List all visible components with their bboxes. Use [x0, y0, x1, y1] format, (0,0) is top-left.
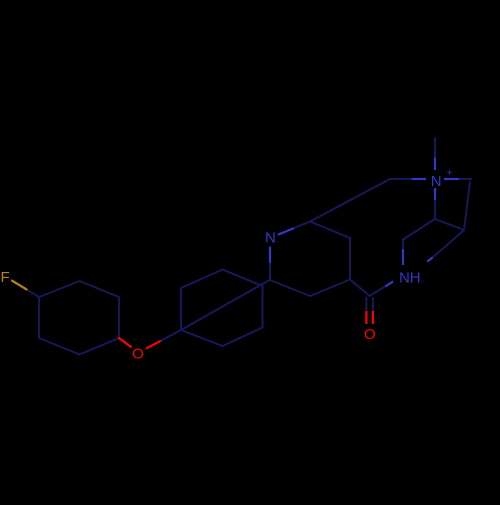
benzene ring1 (4-fluorophenyl) — [39, 281, 80, 297]
svg-text:+: + — [447, 168, 453, 179]
svg-text:N: N — [431, 173, 442, 190]
bond ring1 BR - O ether — [119, 338, 139, 353]
right loop — [464, 182, 470, 230]
svg-text:F: F — [1, 269, 10, 286]
bond F-C(ring1 TL) — [5, 276, 40, 297]
chain Cm - pyridine T — [310, 200, 351, 222]
svg-text:O: O — [364, 326, 376, 343]
bond O ether - ring2 BL — [139, 330, 182, 353]
benzene ring2 (central phenylene) — [180, 288, 182, 330]
C=O double bond — [365, 298, 367, 323]
pyridine ring — [269, 238, 271, 280]
bond N+ - CH3 right — [435, 178, 471, 180]
coloured half-bonds — [5, 159, 459, 353]
bond carbonyl C - amide N — [370, 276, 403, 297]
bond C6 - N+ — [434, 179, 436, 219]
bond N+ - CH3 up — [434, 138, 436, 179]
chain CL - Cm — [351, 179, 391, 200]
label knockouts — [0, 170, 444, 361]
svg-text:NH: NH — [399, 270, 421, 287]
svg-text:O: O — [132, 346, 144, 363]
svg-text:N: N — [265, 230, 276, 247]
bond amide N - Cx — [402, 240, 404, 276]
atom labels — [1, 168, 453, 363]
bond N+ - CL — [390, 178, 435, 180]
long bond pyridine BL - ring2 BL — [181, 280, 270, 330]
bond pyridine BR - carbonyl C — [350, 280, 370, 297]
bond Cx - C6 — [403, 219, 435, 240]
